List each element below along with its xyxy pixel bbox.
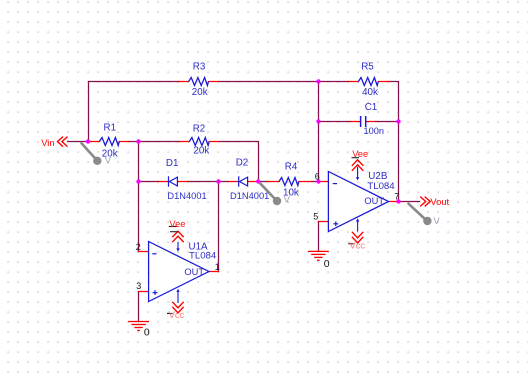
svg-text:10k: 10k — [283, 188, 299, 199]
svg-text:Vout: Vout — [430, 196, 449, 207]
svg-text:40k: 40k — [362, 87, 378, 98]
svg-text:Vee: Vee — [352, 149, 368, 159]
svg-text:R2: R2 — [193, 123, 206, 134]
svg-text:R5: R5 — [361, 62, 374, 73]
svg-text:5: 5 — [313, 211, 318, 221]
svg-text:D1: D1 — [166, 158, 179, 169]
svg-text:TL084: TL084 — [367, 181, 395, 192]
svg-text:TL084: TL084 — [189, 251, 217, 262]
svg-text:OUT: OUT — [184, 267, 204, 277]
svg-text:OUT: OUT — [364, 196, 384, 206]
svg-text:C1: C1 — [365, 102, 378, 113]
svg-text:3: 3 — [136, 281, 141, 291]
svg-text:Vcc: Vcc — [350, 241, 366, 251]
svg-text:Vee: Vee — [169, 219, 185, 229]
svg-text:20k: 20k — [192, 87, 208, 98]
svg-text:Vin: Vin — [41, 137, 54, 148]
svg-text:6: 6 — [315, 171, 320, 181]
svg-text:20k: 20k — [102, 149, 118, 160]
svg-text:D1N4001: D1N4001 — [167, 191, 206, 201]
svg-text:Vcc: Vcc — [169, 310, 185, 320]
svg-text:20k: 20k — [193, 146, 209, 157]
svg-text:100n: 100n — [364, 126, 384, 136]
svg-text:D1N4001: D1N4001 — [230, 191, 269, 201]
svg-text:R1: R1 — [104, 122, 117, 133]
svg-text:7: 7 — [394, 192, 399, 202]
svg-text:R3: R3 — [193, 62, 206, 73]
svg-text:2: 2 — [136, 242, 141, 252]
svg-text:1: 1 — [215, 262, 220, 272]
svg-text:V: V — [433, 216, 440, 227]
svg-text:0: 0 — [324, 258, 330, 270]
svg-text:0: 0 — [144, 327, 150, 339]
svg-text:D2: D2 — [236, 157, 249, 168]
svg-text:R4: R4 — [285, 161, 298, 172]
